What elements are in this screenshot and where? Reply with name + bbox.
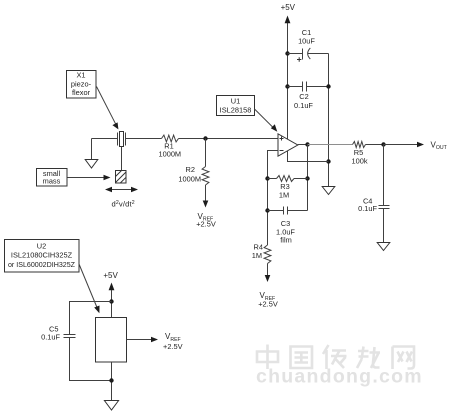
svg-text:0.1uF: 0.1uF <box>41 332 60 341</box>
label VREF +2.5V (below R4) <box>258 291 278 308</box>
arrow small mass to mass <box>68 175 111 181</box>
svg-text:or ISL60002DIH325Z: or ISL60002DIH325Z <box>8 261 76 269</box>
resistor R2 <box>178 165 209 185</box>
resistor R3 <box>268 176 308 200</box>
resistor R4 <box>252 243 271 264</box>
svg-text:1000M: 1000M <box>178 174 201 183</box>
svg-text:mass: mass <box>43 177 61 186</box>
wire op-amp V- pin to rail <box>288 150 329 162</box>
svg-text:d2v/dt2: d2v/dt2 <box>112 200 135 209</box>
arrow R4 to VREF <box>265 264 271 283</box>
svg-text:VOUT: VOUT <box>431 140 448 151</box>
svg-text:U2: U2 <box>37 241 46 250</box>
capacitor C1 (polarized 10uF) <box>288 28 329 62</box>
op-amp U1 power wire top <box>287 23 289 140</box>
svg-text:R2: R2 <box>186 165 195 174</box>
node junction U2 bottom <box>109 378 113 382</box>
svg-text:X1: X1 <box>76 71 85 80</box>
ground (C4) <box>377 243 390 251</box>
svg-text:piezo-: piezo- <box>71 79 92 88</box>
svg-text:0.1uF: 0.1uF <box>294 101 313 110</box>
node junction C1 left <box>285 51 289 55</box>
resistor R5 <box>351 142 367 166</box>
svg-text:+5V: +5V <box>103 271 118 280</box>
node junction C3 left <box>265 208 269 212</box>
wire op-amp inverting input <box>268 151 279 246</box>
svg-text:0.1uF: 0.1uF <box>358 204 377 213</box>
node junction C4 top <box>381 142 385 146</box>
+5V supply arrow U2 <box>103 271 118 318</box>
node junction C2 right <box>326 84 330 88</box>
wire ground stub left <box>91 139 93 160</box>
U2 label box <box>5 240 80 273</box>
label d2v/dt2 <box>112 200 135 209</box>
capacitor C5 (0.1uF) <box>41 324 75 341</box>
capacitor C3 (1.0uF film) <box>268 207 308 245</box>
svg-text:+2.5V: +2.5V <box>258 299 278 308</box>
capacitor C2 (0.1uF) <box>288 82 329 110</box>
svg-text:+2.5V: +2.5V <box>196 220 216 229</box>
node junction U2 top <box>109 299 113 303</box>
wire C5 branch bottom <box>70 338 112 381</box>
arrow X1 label to piezo <box>97 87 119 130</box>
svg-text:ISL21080CIH325Z: ISL21080CIH325Z <box>11 251 73 260</box>
wire R5 to output node <box>366 144 384 146</box>
svg-text:+2.5V: +2.5V <box>163 342 183 351</box>
label VREF +2.5V (below R2) <box>196 212 216 229</box>
svg-text:100k: 100k <box>351 157 367 166</box>
wire U2 bottom rail <box>111 362 113 401</box>
svg-text:1M: 1M <box>252 251 262 260</box>
wire output to R5 (light) <box>308 144 353 146</box>
svg-text:1000M: 1000M <box>158 149 181 158</box>
mass (hatched block) <box>116 171 127 184</box>
ground (op-amp supply) <box>322 187 335 195</box>
svg-text:flexor: flexor <box>72 88 91 97</box>
node junction V- return <box>326 159 330 163</box>
svg-text:chuandong.com: chuandong.com <box>256 366 423 388</box>
wire feedback rail vertical <box>307 145 309 211</box>
arrow U2 label to regulator <box>79 264 100 313</box>
wire piezo to mass <box>121 147 123 171</box>
node junction C2 left <box>285 84 289 88</box>
watermark chinese characters <box>257 345 414 370</box>
svg-text:10uF: 10uF <box>298 37 315 46</box>
watermark chuandong.com <box>256 366 423 388</box>
svg-text:+5V: +5V <box>281 3 296 12</box>
label VOUT <box>431 140 448 151</box>
U1 label box <box>217 96 255 116</box>
ground (U2) <box>104 401 118 411</box>
piezo transducer X1 <box>118 132 126 147</box>
voltage reference U2 <box>96 318 127 363</box>
node junction R3 left <box>265 176 269 180</box>
X1 label box <box>67 71 97 99</box>
svg-text:1M: 1M <box>279 190 289 199</box>
svg-text:film: film <box>280 236 292 245</box>
resistor R1 <box>158 135 181 158</box>
wire main input horizontal <box>92 138 279 140</box>
motion double arrow <box>105 187 138 193</box>
capacitor C4 (0.1uF) <box>358 145 389 243</box>
node junction R1/R2 <box>203 136 207 140</box>
wire decoupling right rail <box>328 54 330 187</box>
node junction output <box>305 142 309 146</box>
wire node to R2 <box>205 139 207 167</box>
wire C5 branch top <box>70 302 112 335</box>
+5V supply arrow U1 <box>281 3 296 23</box>
svg-text:ISL28158: ISL28158 <box>220 105 252 114</box>
ground <box>85 160 98 169</box>
arrow U2 output to VREF <box>127 337 159 343</box>
arrow U1 label to op-amp <box>255 109 278 132</box>
op-amp U1 <box>278 134 298 156</box>
arrow R2 to VREF <box>203 185 209 208</box>
node junction R3 right <box>305 176 309 180</box>
wire op-amp output <box>298 144 308 146</box>
arrow to VOUT <box>384 142 425 148</box>
svg-text:U1: U1 <box>231 96 240 105</box>
small mass label box <box>37 169 68 187</box>
label VREF +2.5V (U2 output) <box>163 332 183 351</box>
